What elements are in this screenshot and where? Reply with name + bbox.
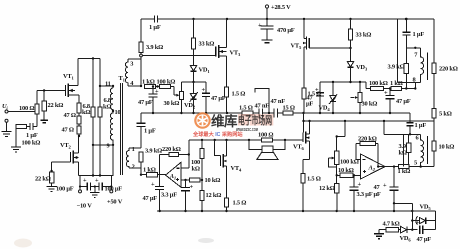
series RC 100k + 1uF to ground (input) xyxy=(16,126,37,128)
svg-text:+: + xyxy=(151,181,155,188)
svg-text:VT6: VT6 xyxy=(293,144,304,152)
resistor 1k (bias chain left) xyxy=(144,84,155,88)
svg-text:+: + xyxy=(315,87,319,94)
node bias loop top wire xyxy=(181,81,206,83)
wire VT2 drain junction to 47ohm chain xyxy=(78,135,81,137)
A1 output wire xyxy=(181,179,189,181)
resistor 22k (upper, VT1 gate shunt) xyxy=(42,101,46,111)
transistor VT4 xyxy=(220,156,222,167)
mid rail (zobel rail) xyxy=(141,112,410,114)
resistor 100k (VT4 gate pull) xyxy=(200,149,204,159)
svg-text:VT5: VT5 xyxy=(291,43,302,51)
svg-text:47 μF: 47 μF xyxy=(143,195,158,202)
T2 core xyxy=(426,53,428,165)
svg-text:+: + xyxy=(190,184,194,191)
A1 feedback right leg to inverting input xyxy=(181,140,189,168)
capacitor 3.3uF (A1 output) xyxy=(185,180,187,187)
resistor 1k (right chain) xyxy=(383,88,391,90)
right feed column 220k/5k/10k xyxy=(433,19,435,167)
svg-text:47 μF: 47 μF xyxy=(396,98,411,105)
bracket tap above zobel xyxy=(255,89,269,113)
svg-text:+: + xyxy=(384,90,388,97)
resistor 220k (A1 feedback) xyxy=(160,154,189,156)
svg-text:+: + xyxy=(155,88,159,95)
T1 winding 3-4 (box) xyxy=(128,59,141,86)
svg-text:+: + xyxy=(258,22,262,29)
svg-text:1 μF: 1 μF xyxy=(413,31,425,38)
svg-text:12 kΩ: 12 kΩ xyxy=(319,185,335,192)
input jack ground terminal xyxy=(5,119,8,122)
svg-text:1 μF: 1 μF xyxy=(415,122,427,129)
terminal circle at winding 3 feed xyxy=(140,54,143,57)
resistor 10k (A1 output series) xyxy=(189,178,199,182)
resistor 6.8k (left column b) xyxy=(98,107,102,117)
svg-text:Ui: Ui xyxy=(2,103,8,111)
svg-text:10: 10 xyxy=(115,109,121,116)
wire VT5 gate xyxy=(309,47,350,50)
ground (22k lower) xyxy=(46,187,57,192)
T1 secondary winding 1-2 (box) xyxy=(129,148,141,168)
speaker xyxy=(249,140,285,150)
svg-text:12 kΩ: 12 kΩ xyxy=(206,192,222,199)
A2 output wire + resistor 1k xyxy=(378,166,434,168)
resistor 100k (bias chain left) xyxy=(155,86,159,88)
tap 9 xyxy=(112,144,114,146)
svg-text:3.9 kΩ: 3.9 kΩ xyxy=(145,148,162,155)
svg-text:+: + xyxy=(416,220,420,227)
svg-text:1 μF: 1 μF xyxy=(144,128,156,135)
resistor 1.5 ohm (VT4 source) xyxy=(224,198,228,207)
svg-text:1: 1 xyxy=(132,146,135,153)
svg-text:47 Ω: 47 Ω xyxy=(62,127,74,134)
PSU filter caps 100uF x2 xyxy=(80,176,111,190)
svg-text:VT3: VT3 xyxy=(230,50,241,58)
svg-text:kΩ: kΩ xyxy=(82,109,90,116)
svg-text:3.9 kΩ: 3.9 kΩ xyxy=(388,64,405,71)
zobel capacitor 47nF b xyxy=(274,109,277,118)
svg-text:VD1: VD1 xyxy=(199,67,211,75)
svg-text:VD3: VD3 xyxy=(356,64,368,72)
svg-text:100 kΩ: 100 kΩ xyxy=(157,79,176,86)
diode VD6 xyxy=(398,229,400,231)
svg-text:3.9 kΩ: 3.9 kΩ xyxy=(146,44,163,51)
capacitor 47uF (A2 output gnd) xyxy=(393,167,395,187)
svg-text:VD2: VD2 xyxy=(184,102,196,110)
op-amp A1 (apex left) xyxy=(166,162,182,187)
svg-text:22 kΩ: 22 kΩ xyxy=(48,102,64,109)
diode VD1 (zener) xyxy=(193,19,195,38)
svg-text:+50 V: +50 V xyxy=(107,199,123,206)
svg-text:3.3 μF: 3.3 μF xyxy=(161,192,177,199)
svg-text:220 kΩ: 220 kΩ xyxy=(358,136,377,143)
svg-text:μF: μF xyxy=(374,191,381,198)
ground (VD6 branch) xyxy=(378,230,380,234)
A1 feedback left leg to cap xyxy=(159,155,161,187)
svg-text:VD4: VD4 xyxy=(319,105,331,113)
svg-text:+: + xyxy=(383,182,387,189)
left bias column wires xyxy=(92,59,94,176)
svg-text:100 μF: 100 μF xyxy=(56,185,74,192)
resistor 12k (right) xyxy=(335,183,339,193)
wire VT3 gate feed xyxy=(142,55,215,57)
svg-text:1 kΩ: 1 kΩ xyxy=(398,168,411,175)
node rail junctions xyxy=(192,18,194,20)
svg-text:47 Ω: 47 Ω xyxy=(64,112,76,119)
resistor 10k (A2 +input) xyxy=(337,174,340,176)
svg-text:VT2: VT2 xyxy=(60,142,71,150)
svg-text:10 kΩ: 10 kΩ xyxy=(439,144,455,151)
zobel resistor 1.5 ohm series xyxy=(242,111,253,115)
faint smudge bottom center xyxy=(198,238,214,243)
sub rail right (y121) xyxy=(304,120,435,122)
svg-text:100 kΩ: 100 kΩ xyxy=(369,80,388,87)
resistor 10k (right column) xyxy=(432,141,436,151)
svg-text:22 kΩ: 22 kΩ xyxy=(35,176,51,183)
resistor 47 ohm (chain b) xyxy=(78,124,80,126)
svg-text:+: + xyxy=(95,177,99,184)
wire sub-rail to T2 winding 6 xyxy=(384,121,421,134)
zobel resistor 15 ohm xyxy=(283,111,293,115)
T1 primary winding upper section (taps 11,10) xyxy=(112,86,114,88)
svg-text:3.3 μF: 3.3 μF xyxy=(357,191,373,198)
tap 10 xyxy=(112,110,114,112)
wire VT2 gate xyxy=(52,162,71,172)
svg-text:10 kΩ: 10 kΩ xyxy=(338,167,354,174)
svg-text:1.5 Ω: 1.5 Ω xyxy=(233,200,247,207)
svg-text:2: 2 xyxy=(132,164,135,171)
resistor (left column a) xyxy=(91,107,95,117)
svg-text:47 μF: 47 μF xyxy=(417,236,432,243)
svg-text:30 kΩ: 30 kΩ xyxy=(362,101,378,108)
svg-text:220 kΩ: 220 kΩ xyxy=(439,66,458,73)
svg-text:+: + xyxy=(358,181,362,188)
transistor VT3 xyxy=(215,47,217,57)
diode VD2 xyxy=(190,94,196,100)
svg-text:7: 7 xyxy=(414,52,418,59)
resistor 1k (A1 input) xyxy=(140,174,142,176)
speaker output wire xyxy=(189,139,303,141)
svg-text:1.5 Ω: 1.5 Ω xyxy=(232,91,246,98)
svg-text:1.5 Ω: 1.5 Ω xyxy=(307,176,321,183)
right closure of VD5 loop xyxy=(435,211,437,230)
svg-text:1 kΩ: 1 kΩ xyxy=(390,80,403,87)
wire tap9 to bias column xyxy=(93,144,113,146)
T2 winding 6-5 (box) xyxy=(403,134,405,166)
resistor 1.5 ohm (VT3 source) xyxy=(224,87,228,97)
wire loop right end down to chain xyxy=(365,82,367,89)
diode VD3 (zener) xyxy=(347,62,353,68)
capacitor 3.3uF (A2 +input gnd) xyxy=(353,175,355,187)
svg-text:100 kΩ: 100 kΩ xyxy=(22,140,41,147)
resistor 1.5 ohm (VT6 source) xyxy=(301,174,305,184)
svg-text:VD6: VD6 xyxy=(400,235,412,243)
capacitor 1uF (T2 winding 6 feed) xyxy=(409,113,411,134)
svg-text:kΩ: kΩ xyxy=(192,166,200,173)
resistor 33k (right) xyxy=(348,29,352,40)
svg-text:33 kΩ: 33 kΩ xyxy=(356,32,372,39)
svg-text:3: 3 xyxy=(130,61,133,68)
svg-text:4.7 kΩ: 4.7 kΩ xyxy=(383,221,400,228)
svg-text:+28.5 V: +28.5 V xyxy=(271,4,291,11)
capacitor 47uF electrolytic (right chain) xyxy=(389,89,391,96)
A2 feedback column xyxy=(377,144,379,167)
svg-text:1 μF: 1 μF xyxy=(149,24,161,31)
svg-text:47: 47 xyxy=(374,184,381,191)
resistor 5k (right column) xyxy=(432,109,436,119)
svg-text:220 kΩ: 220 kΩ xyxy=(162,146,181,153)
resistor 22k (lower, VT2 gate) xyxy=(49,172,53,183)
capacitor 470uF on +28.5V rail xyxy=(266,19,268,40)
svg-text:9: 9 xyxy=(107,143,110,150)
wire VT1 drain top xyxy=(78,58,100,60)
transformer T2 winding 7-8 (box) xyxy=(397,19,420,82)
resistor 220k (A2 feedback) xyxy=(356,143,378,145)
capacitor 47uF (A1 input gnd) xyxy=(155,187,164,190)
bottom closing rail of bias box xyxy=(79,175,114,177)
svg-text:30 kΩ: 30 kΩ xyxy=(164,100,180,107)
svg-text:−10 V: −10 V xyxy=(77,203,93,210)
VD5 feedback branch wire xyxy=(394,203,412,229)
tap 11 xyxy=(112,85,114,87)
svg-text:5: 5 xyxy=(414,160,417,167)
wire VT4 gate xyxy=(215,140,221,156)
capacitor 47uF (VD branch) xyxy=(420,226,423,234)
T1 core xyxy=(120,83,122,175)
svg-text:VD5: VD5 xyxy=(420,204,432,212)
svg-text:VT1: VT1 xyxy=(63,73,74,81)
capacitor 1uF (top right) xyxy=(406,19,408,32)
capacitor 47uF (right bias a) xyxy=(319,82,321,93)
wire VT6 gate bias xyxy=(337,121,345,137)
op-amp A2 xyxy=(361,154,386,179)
bottom ground rail xyxy=(157,210,436,212)
resistor 6.8k (VT1 source chain) xyxy=(77,103,81,113)
resistor 220k (right column) xyxy=(432,63,436,74)
svg-text:+: + xyxy=(83,177,87,184)
wire input to 100ohm xyxy=(8,111,37,113)
svg-text:1 μF: 1 μF xyxy=(26,132,38,139)
ground (PSU mid) xyxy=(94,187,96,193)
svg-text:1 kΩ: 1 kΩ xyxy=(142,79,155,86)
-10V supply terminal xyxy=(79,190,82,193)
svg-text:5 kΩ: 5 kΩ xyxy=(439,111,452,118)
svg-text:kΩ: kΩ xyxy=(399,150,407,157)
ground of 470uF xyxy=(262,40,273,43)
svg-text:100 Ω: 100 Ω xyxy=(258,132,273,139)
svg-text:μF: μF xyxy=(306,101,313,108)
ground (input jack) xyxy=(6,122,8,131)
A2 -input lead xyxy=(356,144,361,160)
svg-text:1.5 Ω: 1.5 Ω xyxy=(239,105,253,112)
svg-text:47 nF: 47 nF xyxy=(255,103,270,110)
svg-text:47 μF: 47 μF xyxy=(138,99,153,106)
bias loop top wire (right) xyxy=(320,81,366,83)
resistor 100 ohm (speaker damp) xyxy=(261,138,272,142)
ground (input RC) xyxy=(11,147,21,152)
diode VD4 xyxy=(330,96,336,102)
svg-text:100 μF: 100 μF xyxy=(105,185,123,192)
resistor 47 ohm (chain a) xyxy=(78,113,80,116)
svg-text:10 kΩ: 10 kΩ xyxy=(205,177,221,184)
svg-text:470 μF: 470 μF xyxy=(277,27,295,34)
zobel capacitor 47nF a xyxy=(259,109,262,118)
svg-text:47 μF: 47 μF xyxy=(211,95,226,102)
capacitor 47uF (bias loop) xyxy=(205,82,207,93)
top supply rail xyxy=(141,18,434,20)
capacitor 47uF electrolytic (bias) xyxy=(152,87,154,95)
svg-text:6: 6 xyxy=(416,135,420,142)
svg-text:VT4: VT4 xyxy=(231,165,242,173)
wire VT1 gate xyxy=(37,90,66,92)
+28.5V supply terminal xyxy=(265,5,268,8)
resistor 100k (right chain) xyxy=(366,88,370,90)
resistor 12k (A1 out to gnd) xyxy=(200,191,204,201)
svg-text:100 Ω: 100 Ω xyxy=(19,105,34,112)
svg-text:+: + xyxy=(202,87,206,94)
+50V supply terminal xyxy=(110,190,113,193)
svg-text:33 kΩ: 33 kΩ xyxy=(199,41,215,48)
svg-text:T1: T1 xyxy=(119,75,126,83)
resistor 1.5 ohm (VT5 source) xyxy=(302,88,306,99)
capacitor 1uF (T1 feed) xyxy=(140,113,142,123)
svg-text:1 kΩ: 1 kΩ xyxy=(143,167,156,174)
svg-text:15 Ω: 15 Ω xyxy=(283,105,295,112)
resistor 3.9k (A1 input shunt) xyxy=(139,152,143,162)
capacitor C 1uF top-left (series in rail) xyxy=(154,16,157,23)
resistor 3.9k (top-left) xyxy=(140,19,142,42)
